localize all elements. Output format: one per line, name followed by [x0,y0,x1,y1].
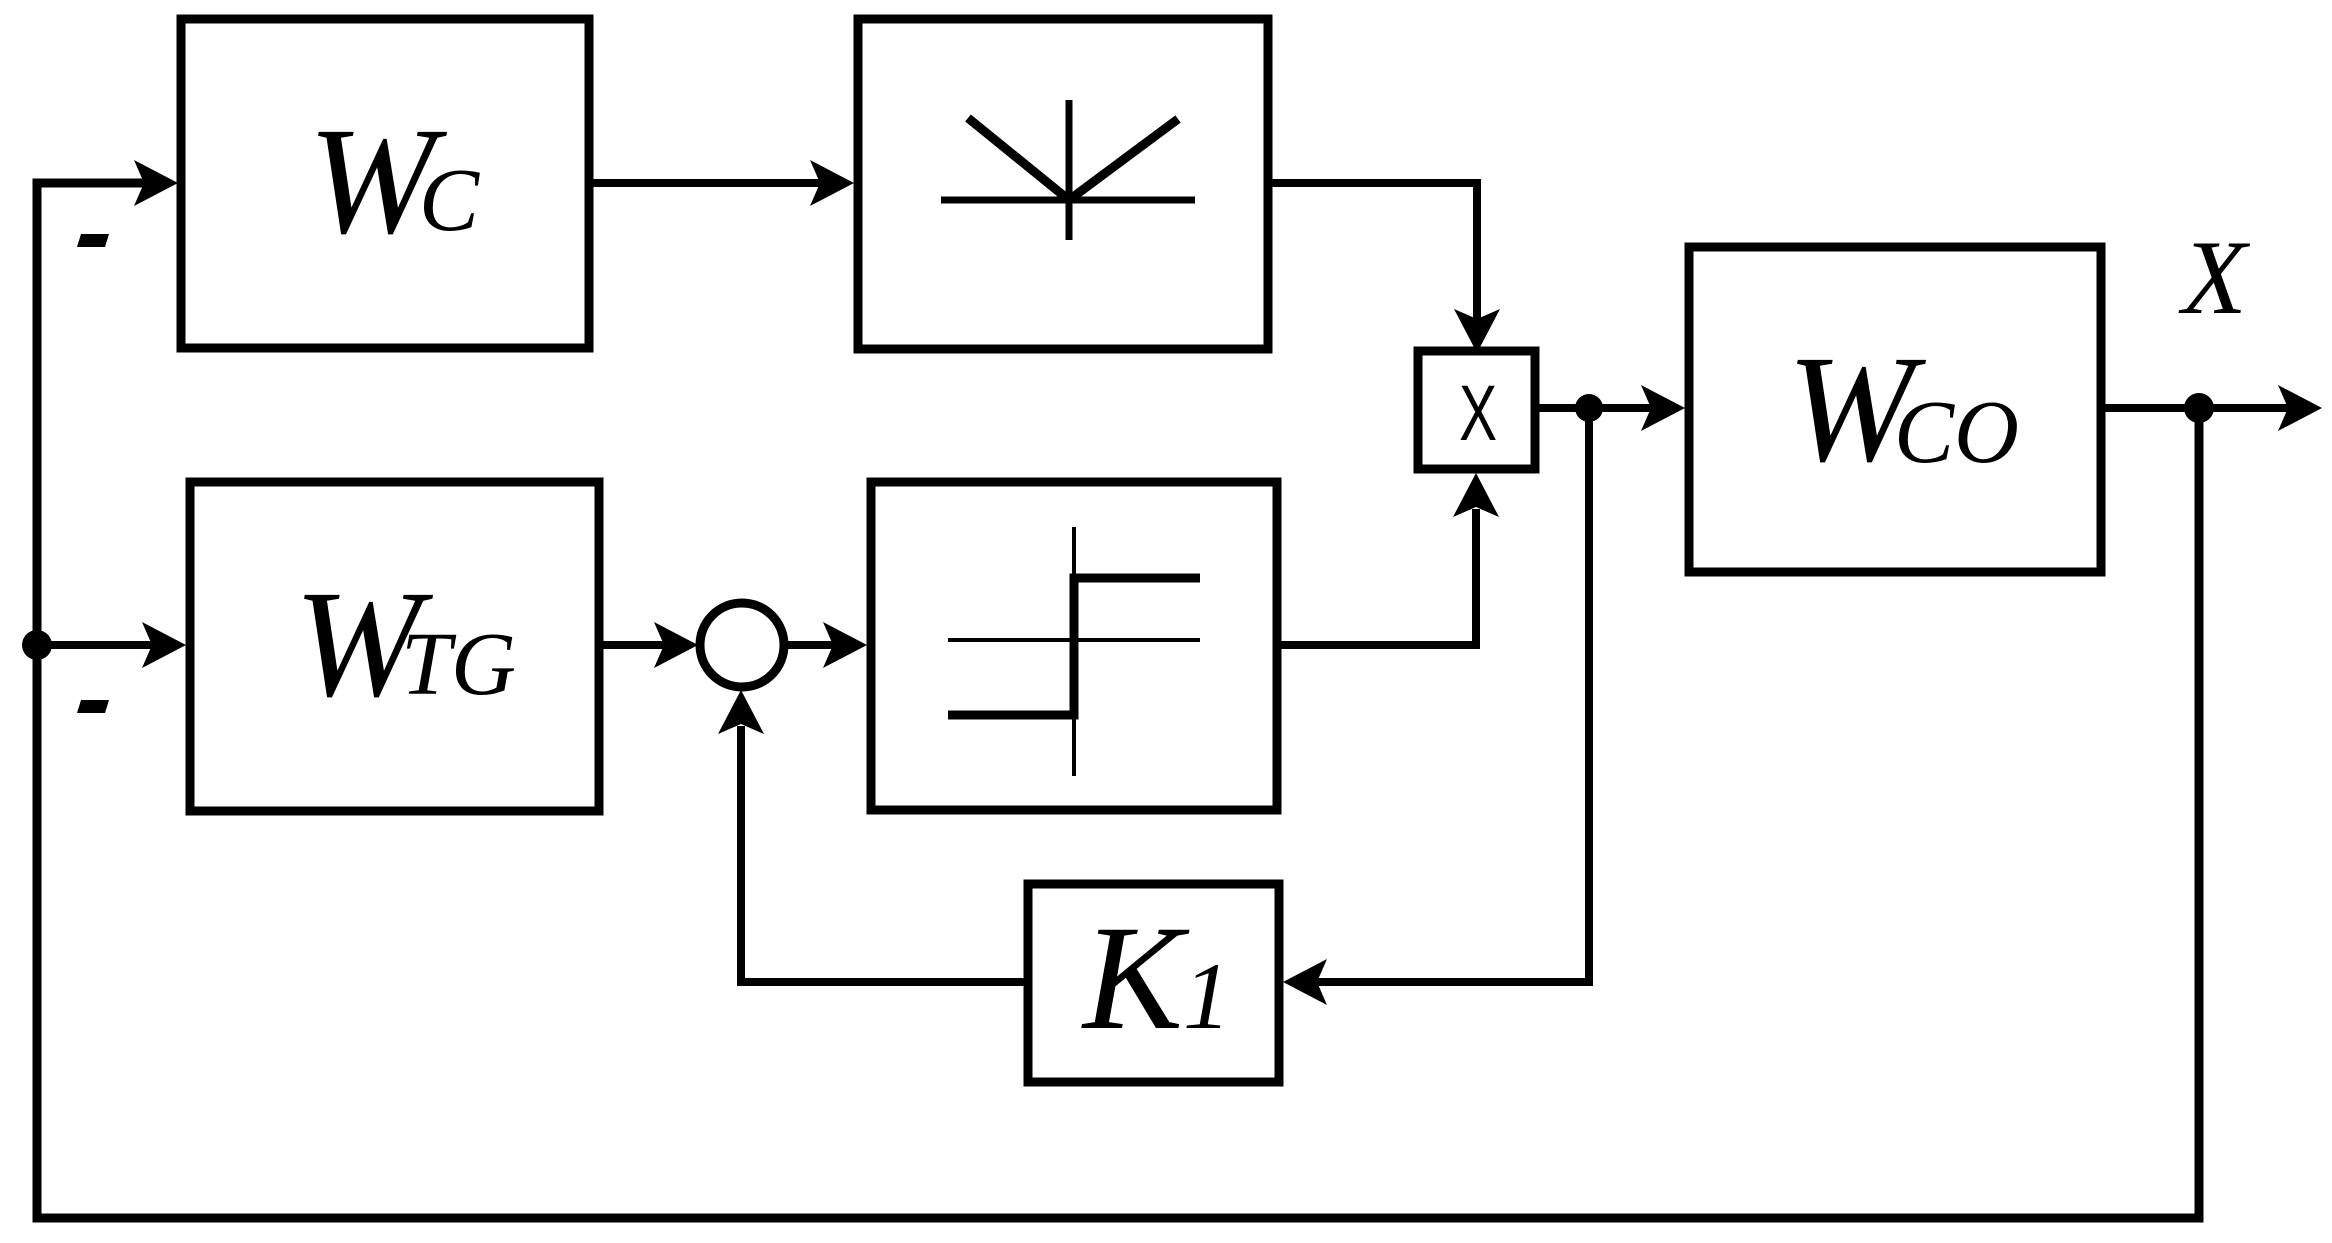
svg-text:C: C [419,151,480,250]
svg-text:1: 1 [1183,943,1231,1049]
svg-text:CO: CO [1894,383,2019,482]
svg-text:X: X [2178,219,2251,336]
svg-text:X: X [1459,369,1497,457]
svg-text:TG: TG [401,615,516,714]
svg-text:K: K [1081,895,1190,1061]
